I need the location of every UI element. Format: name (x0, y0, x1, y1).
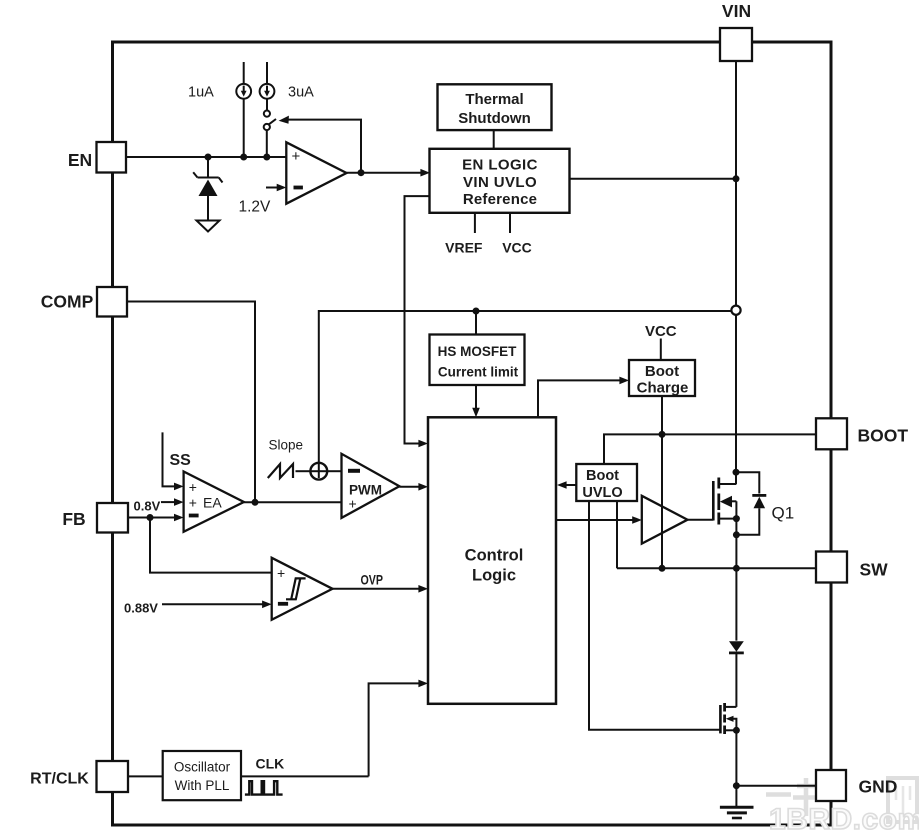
svg-text:EN: EN (68, 150, 92, 170)
svg-text:+: + (189, 495, 197, 511)
label 0.8V (134, 499, 161, 514)
node EN-1uA junction (240, 154, 247, 161)
svg-text:Charge: Charge (637, 380, 689, 397)
label + input of U1 (292, 148, 301, 165)
wire boot UVLO to SW rail (616, 501, 618, 568)
node EN-switch junction (263, 154, 270, 161)
svg-text:With PLL: With PLL (175, 778, 230, 793)
label Slope (269, 438, 304, 453)
wire tap into HS MOSFET block (475, 311, 477, 335)
svg-text:1.2V: 1.2V (239, 199, 272, 216)
svg-text:VIN UVLO: VIN UVLO (463, 174, 537, 191)
label VIN (722, 1, 751, 21)
wire 0.8V reference input (161, 498, 184, 506)
label EA - input (189, 514, 199, 518)
watermark (766, 778, 917, 822)
pin COMP (97, 287, 127, 317)
wire comparator feedback to switch (279, 116, 361, 173)
node open circle on VIN rail (731, 306, 740, 315)
svg-text:VREF: VREF (445, 240, 483, 256)
gate driver buffer (642, 496, 688, 544)
svg-text:0.8V: 0.8V (134, 499, 161, 514)
pin VIN (720, 28, 752, 61)
label PWM + input (349, 496, 357, 512)
ground symbol under zener (197, 221, 220, 232)
node current limit tap (473, 308, 480, 315)
svg-text:EN LOGIC: EN LOGIC (462, 157, 538, 174)
node Q2 source (733, 727, 740, 734)
svg-text:VIN: VIN (722, 1, 751, 21)
pin RT/CLK (97, 761, 129, 792)
wire boot UVLO to low-side gate (589, 501, 720, 730)
wire FB to OVP (150, 518, 272, 573)
label 3uA (288, 85, 314, 101)
wire oscillator CLK output (241, 775, 369, 777)
IC outer boundary box (113, 42, 832, 825)
node EN-zener junction (205, 154, 212, 161)
svg-text:Logic: Logic (472, 567, 516, 585)
wire summer to PWM - input (327, 470, 341, 472)
current source I2 3uA (260, 62, 275, 110)
svg-text:GND: GND (859, 777, 898, 797)
label PWM - input (348, 469, 360, 473)
node GND junction (733, 782, 740, 789)
pin BOOT (816, 418, 847, 449)
label Boot Charge (637, 363, 689, 397)
label Oscillator With PLL (174, 760, 231, 794)
label HS MOSFET Current limit (438, 344, 519, 380)
ground symbol (720, 786, 754, 818)
svg-text:VCC: VCC (502, 240, 532, 256)
node driver rail on SW (659, 565, 666, 572)
wire FB input (128, 514, 184, 522)
svg-text:Q1: Q1 (772, 504, 795, 523)
wire VCC to boot charge (660, 339, 662, 361)
label OVP - input (278, 602, 288, 606)
label GND (859, 777, 898, 797)
pin GND (816, 770, 846, 801)
svg-text:+: + (277, 565, 285, 581)
label 0.88V (124, 601, 158, 616)
clock waveform symbol (245, 781, 283, 794)
label RT/CLK (30, 771, 89, 788)
svg-text:FB: FB (62, 509, 85, 529)
wire U1 output to EN LOGIC (347, 169, 431, 177)
wire HS MOSFET block to control logic (472, 385, 480, 417)
switch S1 on 3uA source (264, 111, 276, 158)
pin SW (816, 552, 847, 583)
wire control logic to boot charge (538, 377, 629, 418)
wire PWM output to control logic (399, 483, 428, 491)
svg-text:Reference: Reference (463, 191, 537, 208)
svg-text:SW: SW (860, 560, 889, 580)
node body diode return (733, 531, 740, 538)
svg-text:Oscillator: Oscillator (174, 760, 231, 775)
sawtooth slope symbol (268, 464, 293, 478)
svg-text:RT/CLK: RT/CLK (30, 771, 89, 788)
op-amp PWM comparator (342, 454, 400, 518)
pin EN (97, 142, 127, 173)
watermark url text (769, 803, 919, 833)
wire slope/current-limit rail (319, 311, 732, 463)
svg-text:Current limit: Current limit (438, 365, 519, 380)
label EN LOGIC VIN UVLO Reference (462, 157, 538, 209)
label CLK (256, 756, 285, 772)
svg-text:Boot: Boot (586, 468, 619, 484)
label Thermal Shutdown (458, 91, 530, 127)
node FB tap (147, 514, 154, 521)
EN logic block (430, 149, 570, 213)
node boot charge to BOOT rail (659, 431, 666, 438)
svg-text:SS: SS (170, 452, 192, 469)
node COMP-EA output junction (252, 499, 259, 506)
node Q1 source (733, 515, 740, 522)
svg-text:HS MOSFET: HS MOSFET (438, 344, 518, 359)
label COMP (41, 292, 94, 312)
op-amp OVP comparator (272, 558, 333, 620)
label PWM (349, 483, 382, 498)
pin VREF stub (474, 213, 476, 233)
control logic block (428, 417, 556, 704)
label Control Logic (465, 547, 524, 585)
label BOOT (858, 426, 909, 446)
svg-text:0.88V: 0.88V (124, 601, 158, 616)
node Q1 drain on VIN rail (733, 469, 740, 476)
op-amp U1 EN comparator (286, 142, 346, 203)
wire sawtooth to summer (296, 470, 311, 472)
svg-text:1uA: 1uA (188, 85, 214, 101)
label Boot UVLO (582, 468, 622, 501)
node U1 output (358, 169, 365, 176)
wire driver to Q1 gate (688, 519, 714, 521)
wire EN horizontal (124, 156, 286, 158)
wire SS input (163, 432, 184, 490)
diode D2 to low-side switch (729, 641, 744, 707)
summing junction (310, 463, 327, 480)
svg-text:Shutdown: Shutdown (458, 110, 530, 127)
label Q1 (772, 504, 795, 523)
wire boot UVLO to control logic (557, 481, 576, 489)
wire EN logic output to VIN rail (570, 178, 737, 180)
transistor Q1 high-side MOSFET (713, 478, 736, 569)
svg-text:1BRD.com: 1BRD.com (769, 803, 919, 833)
svg-text:UVLO: UVLO (582, 485, 622, 501)
svg-text:Control: Control (465, 547, 524, 565)
svg-text:Boot: Boot (645, 363, 679, 380)
wire SW rail (617, 567, 816, 569)
label EN (68, 150, 92, 170)
wire EN logic to control logic (405, 196, 430, 447)
op-amp EA error amplifier (184, 472, 244, 532)
node on VIN rail (733, 175, 740, 182)
wire SW to diode (735, 568, 737, 640)
wire to GND pin (736, 785, 816, 787)
wire EA output to PWM (244, 501, 342, 503)
svg-text:Thermal: Thermal (465, 91, 523, 108)
wire 0.88V reference input (162, 601, 272, 609)
svg-text:CLK: CLK (256, 756, 285, 772)
svg-text:VCC: VCC (645, 323, 677, 340)
label 1.2V (239, 199, 272, 216)
label SS (170, 452, 192, 469)
wire CLK to control logic (369, 680, 428, 777)
pin FB (97, 503, 128, 533)
wire BOOT rail (604, 434, 816, 464)
label SW (860, 560, 889, 580)
wire COMP to EA output (127, 302, 255, 503)
svg-text:OVP: OVP (361, 572, 384, 588)
wire 1.2V reference input (266, 184, 286, 192)
VIN rail vertical (735, 61, 737, 484)
boot charge block (629, 360, 695, 396)
label OVP + input (277, 565, 285, 581)
wire RT/CLK to oscillator (128, 775, 163, 777)
boot UVLO block (576, 464, 637, 501)
svg-text:+: + (292, 148, 301, 165)
label OVP (361, 572, 384, 588)
oscillator with PLL block (163, 751, 241, 800)
label VCC (502, 240, 532, 256)
zener diode D1 on EN (193, 157, 222, 221)
svg-text:COMP: COMP (41, 292, 94, 312)
wire OVP output to control logic (333, 585, 429, 593)
transistor Q2 low-side MOSFET (720, 703, 736, 786)
svg-text:+: + (189, 479, 197, 495)
svg-text:+: + (349, 496, 357, 512)
node Q1 source on SW (733, 565, 740, 572)
svg-text:EA: EA (203, 495, 222, 511)
pin VCC stub (509, 213, 511, 233)
label VREF (445, 240, 483, 256)
hysteresis symbol (286, 578, 306, 599)
wire boot charge down to SW rail (661, 396, 663, 568)
label FB (62, 509, 85, 529)
label VCC above boot charge (645, 323, 677, 340)
thermal shutdown block (438, 84, 552, 130)
label EA + inputs (189, 479, 223, 511)
label 1uA (188, 85, 214, 101)
svg-text:BOOT: BOOT (858, 426, 909, 446)
wire control logic to gate driver (556, 516, 642, 524)
svg-text:Slope: Slope (269, 438, 304, 453)
diode Q1 body diode (736, 472, 766, 535)
svg-text:3uA: 3uA (288, 85, 314, 101)
current source I1 1uA (236, 62, 251, 157)
label - input of U1 (294, 186, 303, 190)
HS MOSFET current limit block (430, 335, 525, 386)
wire thermal shutdown to EN logic (493, 130, 495, 149)
